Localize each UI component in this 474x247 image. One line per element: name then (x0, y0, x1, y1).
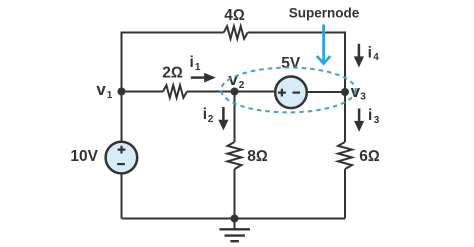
wire v2 down to 8Ω (234, 92, 236, 143)
node v1 dot (118, 88, 126, 96)
svg-text:i: i (368, 107, 372, 124)
svg-text:3: 3 (374, 115, 380, 126)
label v2 (228, 70, 244, 91)
resistor R 2Ω zigzag (163, 85, 187, 98)
wire 2Ω to v2 (187, 91, 235, 93)
wire v2 to 5V source (235, 91, 276, 93)
wire v3 down to 6Ω (344, 92, 346, 143)
current arrow i3 (354, 107, 380, 132)
wire 5V to v3 (307, 91, 345, 93)
svg-text:Supernode: Supernode (289, 5, 360, 20)
svg-text:6Ω: 6Ω (359, 148, 380, 165)
label v3 (351, 82, 367, 103)
svg-text:2Ω: 2Ω (162, 64, 183, 81)
svg-text:1: 1 (107, 90, 113, 101)
wire 10V to bottom rail (121, 173, 123, 218)
supernode dashed ellipse (221, 68, 356, 113)
node v3 dot (341, 88, 349, 96)
resistor R 4Ω zigzag (224, 26, 248, 39)
svg-text:4: 4 (373, 52, 379, 63)
wire 6Ω to bottom rail (344, 169, 346, 219)
voltage source 5V circle (275, 77, 307, 109)
svg-text:3: 3 (360, 91, 366, 102)
label v1 (96, 80, 112, 101)
node v2 dot (231, 88, 239, 96)
svg-text:1: 1 (195, 62, 201, 73)
wire top rail from 4Ω to top-right corner down to v3 (248, 33, 345, 92)
svg-text:i: i (190, 54, 194, 71)
svg-text:2: 2 (239, 80, 245, 91)
svg-text:5V: 5V (281, 55, 301, 72)
svg-text:i: i (368, 44, 372, 61)
current arrow i2 (203, 106, 229, 130)
wire 8Ω to bottom rail (234, 169, 236, 219)
svg-text:4Ω: 4Ω (224, 7, 245, 24)
resistor R 8Ω zigzag (228, 142, 242, 169)
supernode pointer arrow (317, 25, 330, 64)
wire top-left: v1 riser and top rail to 4Ω (122, 33, 224, 92)
node ground junction dot (231, 215, 239, 223)
voltage source 10V circle (106, 142, 138, 174)
current arrow i4 (354, 44, 380, 68)
wire v1 down to 10V source (121, 92, 123, 142)
svg-text:v: v (96, 80, 106, 99)
svg-text:10V: 10V (70, 148, 98, 165)
wire bottom rail (122, 218, 346, 220)
svg-text:2: 2 (208, 114, 214, 125)
svg-text:8Ω: 8Ω (247, 148, 268, 165)
current arrow i1 (190, 54, 216, 82)
ground (219, 219, 250, 242)
wire mid rail v1 to 2Ω (122, 91, 164, 93)
resistor R 6Ω zigzag (338, 142, 352, 169)
svg-text:i: i (203, 106, 207, 123)
